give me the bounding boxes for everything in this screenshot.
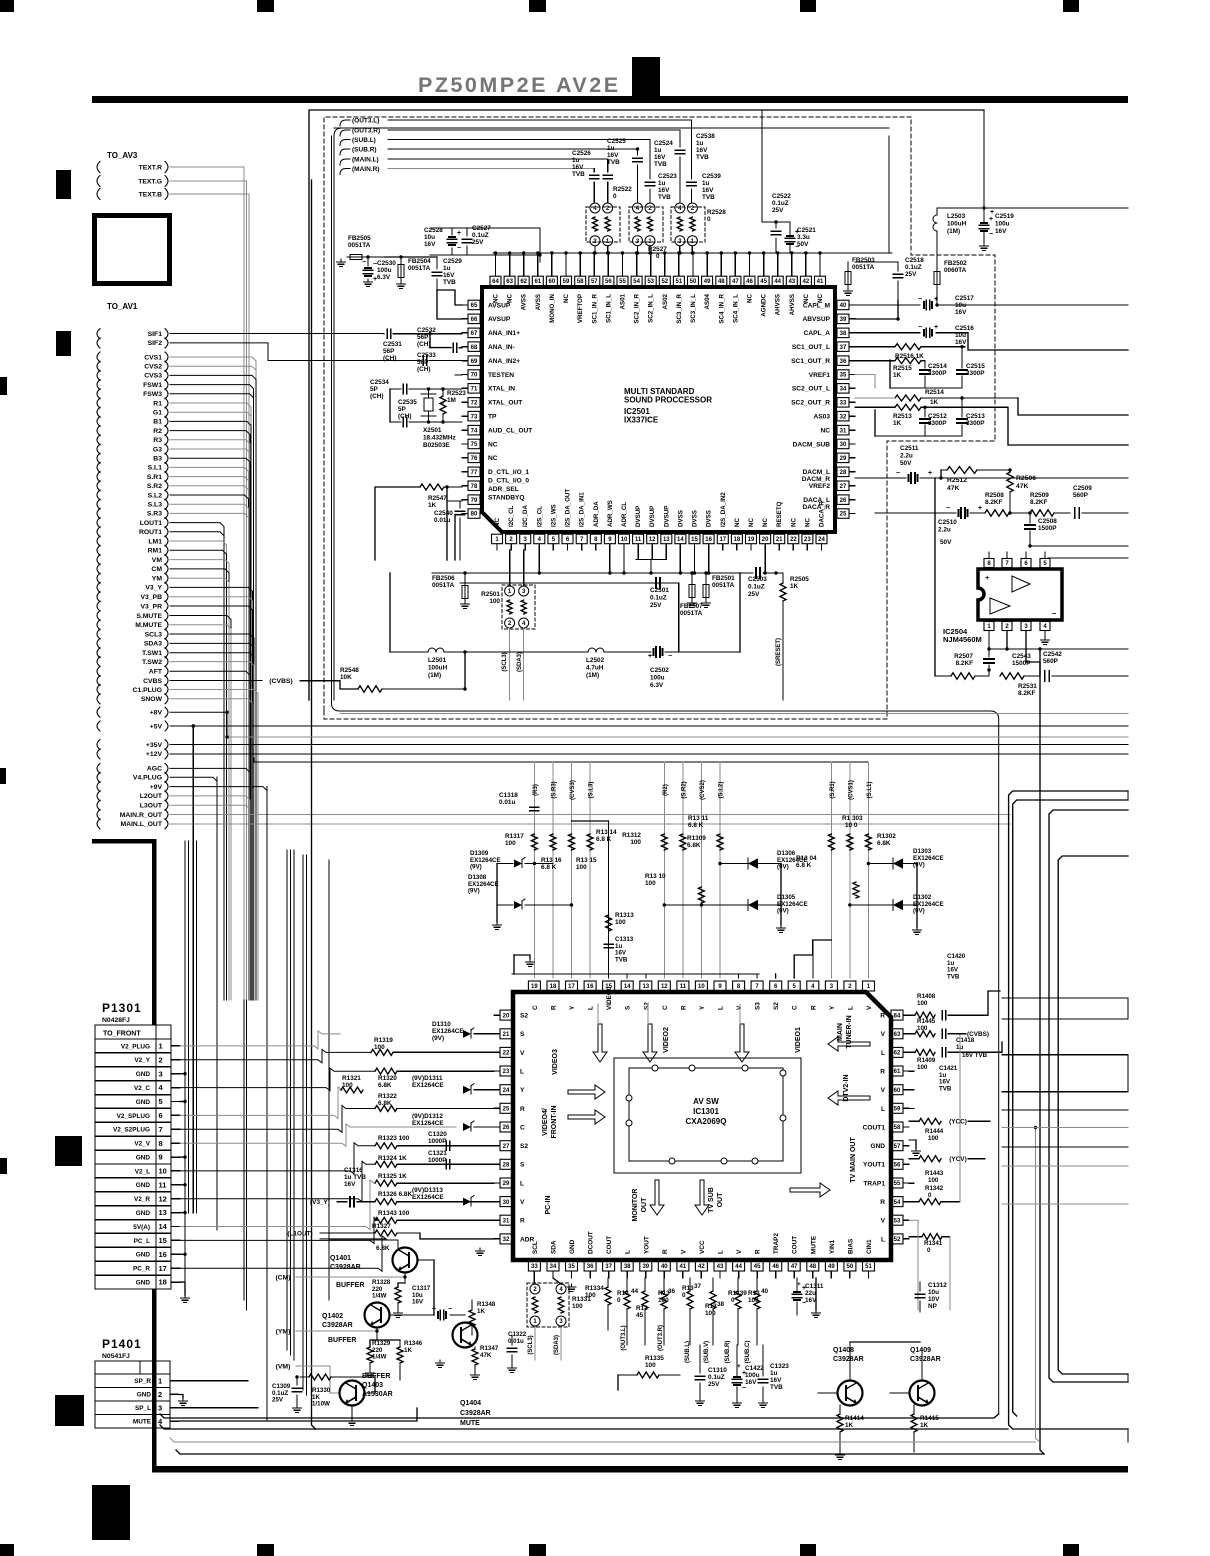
svg-text:27: 27	[503, 1144, 510, 1150]
svg-text:C2521: C2521	[797, 227, 816, 234]
svg-text:SDA3: SDA3	[144, 641, 162, 648]
wire +9V	[170, 787, 267, 1000]
svg-text:R: R	[520, 1218, 525, 1225]
svg-text:V3_PR: V3_PR	[140, 603, 162, 610]
svg-text:C2538: C2538	[696, 133, 715, 140]
wire Q1401 collector	[397, 1240, 399, 1249]
svg-text:VIDEO1: VIDEO1	[795, 1027, 802, 1053]
svg-text:TVB: TVB	[939, 1085, 952, 1092]
black square marker bottom	[92, 1485, 130, 1540]
svg-text:SC2_OUT_L: SC2_OUT_L	[792, 386, 830, 393]
wire (OUT3.R)	[388, 129, 680, 131]
wire TESTEN pin70	[455, 374, 462, 376]
svg-text:79: 79	[471, 498, 478, 504]
wire SIF2	[170, 343, 420, 361]
svg-text:10 0: 10 0	[845, 822, 858, 829]
wire SIF1 to ANA_IN1+	[170, 333, 384, 335]
svg-text:R1313: R1313	[615, 912, 634, 919]
wires P1301 gnd rows	[180, 1073, 185, 1075]
svg-text:16V: 16V	[412, 1299, 424, 1306]
wire MAIN.R_OUT rail	[170, 814, 1010, 816]
svg-text:R2505: R2505	[790, 576, 809, 583]
svg-text:OUT: OUT	[717, 1192, 724, 1208]
svg-text:R: R	[551, 1005, 558, 1010]
svg-text:58: 58	[894, 1125, 901, 1131]
svg-text:16V: 16V	[745, 1379, 757, 1386]
svg-text:PC_R: PC_R	[133, 1266, 150, 1273]
wire R3	[170, 440, 250, 1000]
svg-text:54: 54	[894, 1200, 901, 1206]
frame line B	[1009, 791, 1128, 1429]
svg-text:G3: G3	[153, 446, 162, 453]
svg-text:53: 53	[647, 279, 654, 285]
wire pin55 stub	[909, 1182, 914, 1184]
svg-text:0.1uZ: 0.1uZ	[748, 584, 765, 591]
svg-text:100u: 100u	[995, 221, 1010, 228]
IC1301 arrow video4 b	[568, 1110, 605, 1124]
connector pin S.R1	[97, 472, 100, 482]
svg-text:47K: 47K	[480, 1352, 492, 1359]
svg-text:17: 17	[568, 984, 575, 990]
wire SCL3 SDA3 bottom	[534, 1327, 536, 1360]
connector pin TEXT.B	[97, 189, 100, 200]
connector pin SIF2	[97, 338, 100, 348]
svg-text:R1443: R1443	[925, 1170, 944, 1177]
svg-text:AUD_CL_OUT: AUD_CL_OUT	[488, 427, 532, 434]
connector P1301 pin 2 V2_Y	[95, 1052, 171, 1054]
svg-text:1000P: 1000P	[428, 1138, 447, 1145]
svg-text:Y: Y	[569, 1005, 576, 1010]
svg-text:R13: R13	[682, 1285, 694, 1292]
rail MAIN.R gray	[192, 724, 195, 727]
svg-text:10: 10	[698, 984, 705, 990]
svg-text:V: V	[866, 1005, 873, 1010]
transistor Q1404 mute	[453, 1323, 478, 1348]
svg-text:OUT: OUT	[641, 1197, 648, 1213]
svg-text:V2_SPLUG: V2_SPLUG	[117, 1113, 150, 1120]
svg-text:32: 32	[840, 414, 847, 420]
wire RM1	[170, 550, 227, 1000]
svg-text:(R2): (R2)	[663, 784, 669, 796]
svg-text:6.8K: 6.8K	[378, 1082, 392, 1089]
svg-text:10: 10	[621, 537, 628, 543]
svg-text:48: 48	[809, 1264, 816, 1270]
svg-text:(SUB.L): (SUB.L)	[352, 137, 376, 144]
wire (MAIN.L)	[388, 158, 608, 160]
wires P1301 to AV switch	[180, 1031, 340, 1049]
svg-text:TUNER-IN: TUNER-IN	[846, 1015, 853, 1048]
svg-text:RESETQ: RESETQ	[776, 501, 783, 527]
svg-text:C3928AR: C3928AR	[833, 1356, 864, 1363]
svg-text:R1319: R1319	[374, 1037, 393, 1044]
svg-text:0.01u: 0.01u	[434, 517, 450, 524]
svg-text:C2542: C2542	[1043, 651, 1062, 658]
svg-text:28: 28	[503, 1163, 510, 1169]
crystal X2501	[424, 398, 433, 411]
svg-text:31: 31	[503, 1218, 510, 1224]
svg-text:25V: 25V	[650, 602, 662, 609]
svg-text:7: 7	[159, 1125, 163, 1134]
svg-text:ROUT1: ROUT1	[139, 529, 162, 536]
pin49 gnd	[815, 1278, 817, 1310]
svg-text:XTAL_OUT: XTAL_OUT	[488, 400, 522, 407]
svg-text:53: 53	[894, 1218, 901, 1224]
svg-text:DACA_R: DACA_R	[803, 504, 831, 511]
svg-text:51: 51	[676, 279, 683, 285]
svg-text:0.01u: 0.01u	[508, 1338, 524, 1345]
svg-text:23: 23	[804, 537, 811, 543]
wire SDA3	[170, 643, 254, 1000]
resistor R2506	[1007, 472, 1013, 492]
svg-text:25V: 25V	[472, 239, 484, 246]
wire AVSUP feed	[385, 256, 437, 258]
svg-text:69: 69	[471, 359, 478, 365]
svg-text:+: +	[432, 1306, 436, 1313]
connector P1301 pin 15 PC_L	[95, 1232, 171, 1234]
gnd Q1403	[351, 1418, 353, 1421]
svg-text:YIN1: YIN1	[829, 1239, 836, 1254]
svg-text:BIAS: BIAS	[847, 1238, 854, 1254]
svg-text:59: 59	[563, 279, 570, 285]
svg-text:SOUND PROCCESSOR: SOUND PROCCESSOR	[624, 396, 712, 405]
svg-text:59: 59	[894, 1107, 901, 1113]
wire XTAL_OUT	[442, 402, 444, 404]
svg-text:AVSS: AVSS	[521, 294, 528, 310]
svg-text:EX1264CE: EX1264CE	[412, 1082, 444, 1089]
svg-text:11: 11	[635, 537, 642, 543]
svg-text:24: 24	[818, 537, 825, 543]
svg-text:COUT1: COUT1	[863, 1124, 886, 1131]
svg-text:N0541FJ: N0541FJ	[102, 1353, 130, 1360]
svg-text:100: 100	[917, 1000, 928, 1007]
IC2501 left pins 65-80	[468, 300, 480, 310]
svg-text:52: 52	[661, 279, 668, 285]
resistor R2512	[947, 467, 977, 474]
svg-text:CM: CM	[151, 566, 162, 573]
wire CM	[170, 569, 229, 1000]
svg-text:C2539: C2539	[702, 173, 721, 180]
svg-text:GND: GND	[569, 1239, 576, 1254]
svg-text:1K: 1K	[790, 583, 799, 590]
svg-text:YM: YM	[152, 576, 163, 583]
svg-text:EX1264CE: EX1264CE	[412, 1194, 444, 1201]
svg-text:100: 100	[645, 880, 656, 887]
svg-text:NC: NC	[747, 293, 754, 302]
svg-text:NC: NC	[488, 455, 498, 462]
svg-text:DVSUP: DVSUP	[663, 506, 670, 527]
svg-text:16V: 16V	[424, 241, 436, 248]
rail y573 main	[432, 572, 753, 574]
svg-text:(S.R3): (S.R3)	[552, 781, 558, 798]
IC1301 arrow video2 b	[643, 1024, 657, 1062]
wire network drops to rail	[594, 246, 596, 253]
svg-text:R1341: R1341	[924, 1240, 943, 1247]
connector pin MAIN.L_OUT	[97, 819, 100, 829]
svg-text:44: 44	[735, 1264, 742, 1270]
svg-text:R1323 100: R1323 100	[378, 1135, 410, 1142]
svg-text:36: 36	[840, 359, 847, 365]
svg-text:61: 61	[534, 279, 541, 285]
wire SC2 outs	[855, 375, 875, 389]
svg-text:6.8 K: 6.8 K	[596, 836, 612, 843]
svg-text:DACM_SUB: DACM_SUB	[793, 441, 831, 448]
svg-text:SP_R: SP_R	[134, 1378, 151, 1385]
svg-text:41: 41	[817, 279, 824, 285]
IC1301 arrow dtv2-in	[828, 1091, 870, 1105]
svg-text:CVBS: CVBS	[143, 678, 162, 685]
connector pin S.MUTE	[97, 611, 100, 621]
svg-text:56: 56	[894, 1163, 901, 1169]
svg-text:1u: 1u	[572, 157, 580, 164]
svg-text:V: V	[881, 1218, 886, 1225]
svg-text:S: S	[520, 1162, 525, 1169]
svg-text:C3928AR: C3928AR	[330, 1264, 361, 1271]
svg-text:V2_V: V2_V	[134, 1141, 150, 1148]
svg-text:16V: 16V	[770, 1377, 782, 1384]
svg-text:ADR_WS: ADR_WS	[607, 500, 614, 527]
svg-text:L: L	[520, 1069, 524, 1076]
wire +8V rail	[170, 712, 227, 737]
svg-text:R2522: R2522	[613, 186, 632, 193]
svg-text:560P: 560P	[1073, 492, 1089, 499]
svg-text:GND: GND	[136, 1210, 151, 1217]
svg-text:R2513: R2513	[893, 413, 912, 420]
svg-text:COUT: COUT	[606, 1236, 613, 1254]
svg-text:16V: 16V	[955, 339, 967, 346]
svg-text:+: +	[934, 296, 938, 303]
svg-text:C2531: C2531	[383, 341, 402, 348]
IC2504 top pins	[984, 559, 994, 568]
wire T.SW1	[170, 653, 254, 1000]
svg-text:0.1uZ: 0.1uZ	[772, 200, 789, 207]
svg-text:50V: 50V	[900, 460, 912, 467]
svg-text:(9V): (9V)	[432, 1035, 444, 1042]
svg-text:100: 100	[572, 1303, 583, 1310]
svg-text:C1.PLUG: C1.PLUG	[133, 687, 162, 694]
svg-text:10: 10	[159, 1167, 167, 1176]
svg-text:DVSUP: DVSUP	[649, 506, 656, 527]
svg-text:16V: 16V	[443, 272, 455, 279]
wire fb loop R2507	[934, 478, 936, 676]
svg-text:YOUT: YOUT	[643, 1236, 650, 1254]
connector P1401 table	[95, 1361, 170, 1428]
svg-text:AS04: AS04	[704, 293, 711, 309]
svg-text:R2: R2	[153, 428, 162, 435]
wire SCL3	[170, 634, 254, 1000]
svg-text:V: V	[881, 1031, 886, 1038]
wire (MAIN.R)	[388, 168, 594, 170]
connector pin SIF1	[97, 329, 100, 339]
svg-text:X2501: X2501	[423, 427, 442, 434]
svg-text:SNOW: SNOW	[141, 696, 163, 703]
frame line D	[1058, 856, 1128, 1374]
svg-text:(SUB.R): (SUB.R)	[352, 146, 377, 153]
svg-text:6: 6	[159, 1111, 163, 1120]
svg-text:V: V	[520, 1199, 525, 1206]
wire frame drop x762	[761, 110, 763, 222]
connector P1401 pin 1 SP_R	[95, 1373, 170, 1375]
svg-text:1K: 1K	[428, 502, 437, 509]
svg-text:TVB: TVB	[658, 194, 671, 201]
connector P1301 pin 1 V2_PLUG	[95, 1038, 171, 1040]
svg-text:C2514: C2514	[928, 363, 947, 370]
wire bus verticals x185-196	[184, 841, 186, 1213]
svg-text:2: 2	[159, 1055, 163, 1064]
resistor R2509	[1030, 510, 1054, 516]
svg-text:V3_PB: V3_PB	[140, 594, 162, 601]
svg-text:37: 37	[694, 1283, 702, 1290]
svg-text:8: 8	[159, 1139, 163, 1148]
svg-text:(9V)D1312: (9V)D1312	[412, 1113, 443, 1120]
svg-text:(S.L3): (S.L3)	[589, 782, 595, 799]
svg-text:DVSS: DVSS	[706, 510, 713, 527]
svg-text:V3_Y: V3_Y	[145, 585, 162, 592]
inner frame right edge	[888, 136, 890, 253]
connector pin S.L3	[97, 499, 100, 509]
svg-text:0.1uZ: 0.1uZ	[650, 595, 667, 602]
connector pin V4.PLUG	[97, 772, 100, 782]
svg-text:61: 61	[894, 1069, 901, 1075]
connector pin ROUT1	[97, 527, 100, 537]
svg-text:R: R	[520, 1106, 525, 1113]
svg-text:R2548: R2548	[340, 667, 359, 674]
svg-text:(S.L2): (S.L2)	[719, 782, 725, 799]
connector P1301 pin 12 V2_R	[95, 1191, 171, 1193]
wire bottom pin drops	[538, 550, 540, 573]
svg-text:(CM): (CM)	[275, 1274, 290, 1281]
wire T.SW2	[170, 662, 254, 1000]
svg-text:EX1264CE: EX1264CE	[412, 1120, 444, 1127]
svg-text:14: 14	[677, 537, 684, 543]
wire V3_PB	[170, 597, 253, 1000]
IC1301 bottom pins 33-51	[528, 1261, 540, 1271]
svg-text:100u: 100u	[650, 675, 665, 682]
svg-text:R1327: R1327	[372, 1223, 391, 1230]
svg-text:(VM): (VM)	[276, 1363, 291, 1370]
wire bus verticals x287-307	[286, 850, 288, 1350]
svg-text:L: L	[625, 1250, 632, 1254]
svg-text:R1321: R1321	[342, 1075, 361, 1082]
connector pin +9V	[97, 782, 100, 792]
svg-text:100: 100	[917, 1025, 928, 1032]
wire S.L3	[170, 504, 249, 1000]
connector pin +8V	[97, 707, 100, 717]
svg-text:4.7uH: 4.7uH	[586, 665, 604, 672]
svg-text:VM: VM	[152, 557, 163, 564]
svg-text:51: 51	[865, 1264, 872, 1270]
svg-text:3300P: 3300P	[928, 370, 947, 377]
svg-text:C3928AR: C3928AR	[322, 1322, 353, 1329]
wire +5V rail	[170, 725, 1128, 727]
svg-text:C2509: C2509	[1073, 485, 1092, 492]
svg-text:TEXT.G: TEXT.G	[138, 178, 162, 185]
svg-text:C1323: C1323	[770, 1363, 789, 1370]
resistor R2514	[895, 395, 921, 401]
svg-text:18.432MHz: 18.432MHz	[423, 435, 456, 442]
net (SUB.L) top row	[340, 140, 346, 146]
svg-text:R2501: R2501	[481, 591, 500, 598]
connector P1301 pin 7 V2_S2PLUG	[95, 1121, 171, 1123]
svg-text:(S.R1): (S.R1)	[830, 781, 836, 798]
svg-text:(S.R2): (S.R2)	[681, 781, 687, 798]
svg-text:20: 20	[762, 537, 769, 543]
svg-text:N0428FJ: N0428FJ	[102, 1017, 130, 1024]
wire V4.PLUG	[170, 777, 217, 1000]
frame right edge connectors	[1127, 791, 1129, 800]
svg-text:G1: G1	[153, 410, 162, 417]
svg-text:GND: GND	[136, 1099, 151, 1106]
connector pin CVBS	[97, 676, 100, 686]
svg-text:Q1403: Q1403	[362, 1382, 383, 1389]
svg-text:12: 12	[661, 984, 668, 990]
svg-text:C1312: C1312	[928, 1282, 947, 1289]
svg-text:C2523: C2523	[658, 173, 677, 180]
svg-text:16V: 16V	[702, 187, 714, 194]
svg-text:25V: 25V	[772, 207, 784, 214]
connector P1301 pin 9 GND	[95, 1149, 171, 1151]
svg-text:15: 15	[691, 537, 698, 543]
resistor R2515	[895, 358, 921, 364]
wire supply y208	[937, 207, 1128, 209]
svg-text:R1302: R1302	[877, 833, 896, 840]
svg-text:23: 23	[503, 1069, 510, 1075]
svg-text:(OUT3.R): (OUT3.R)	[352, 127, 380, 134]
svg-text:1: 1	[158, 1376, 162, 1385]
svg-text:+9V: +9V	[150, 784, 163, 791]
IC1301 arrow video1	[735, 1024, 749, 1062]
svg-text:60: 60	[894, 1088, 901, 1094]
svg-text:46: 46	[746, 279, 753, 285]
svg-text:C: C	[532, 1005, 539, 1010]
svg-text:NC: NC	[762, 518, 769, 527]
svg-text:17: 17	[159, 1264, 167, 1273]
svg-text:+: +	[989, 216, 993, 223]
svg-text:41: 41	[680, 1264, 687, 1270]
svg-text:R: R	[810, 1005, 817, 1010]
svg-text:V2_S2PLUG: V2_S2PLUG	[113, 1127, 150, 1134]
svg-text:L3OUT: L3OUT	[140, 803, 163, 810]
connector pin B1	[97, 416, 100, 426]
svg-text:8.2KF: 8.2KF	[1030, 499, 1047, 506]
svg-text:A1530AR: A1530AR	[362, 1391, 393, 1398]
svg-text:25: 25	[503, 1107, 510, 1113]
connector pin CVS3	[97, 370, 100, 380]
svg-text:37: 37	[605, 1264, 612, 1270]
wire pin80 loop	[455, 515, 462, 561]
svg-text:100: 100	[928, 1177, 939, 1184]
svg-text:I2C_DA: I2C_DA	[522, 504, 529, 527]
svg-text:ADR_SEL: ADR_SEL	[488, 486, 519, 493]
svg-text:(CH): (CH)	[417, 341, 431, 348]
wire +12V rail	[170, 753, 1128, 755]
svg-text:(CH): (CH)	[383, 355, 397, 362]
svg-text:MONITOR: MONITOR	[632, 1189, 639, 1222]
svg-text:GND: GND	[136, 1252, 151, 1259]
svg-text:FB2507: FB2507	[680, 603, 703, 610]
connector pin FSW3	[97, 389, 100, 399]
svg-text:0: 0	[927, 1247, 931, 1254]
connector pin L2OUT	[97, 791, 100, 801]
wire ABVSUP	[855, 300, 898, 319]
wire G3	[170, 449, 250, 1000]
svg-text:(SUB.C): (SUB.C)	[745, 1341, 751, 1364]
svg-text:16V: 16V	[658, 187, 670, 194]
svg-text:YOUT1: YOUT1	[863, 1162, 885, 1169]
svg-text:74: 74	[471, 428, 478, 434]
svg-text:(9V): (9V)	[913, 908, 925, 915]
svg-text:T.SW1: T.SW1	[142, 650, 162, 657]
svg-text:DACA_R: DACA_R	[819, 501, 826, 527]
